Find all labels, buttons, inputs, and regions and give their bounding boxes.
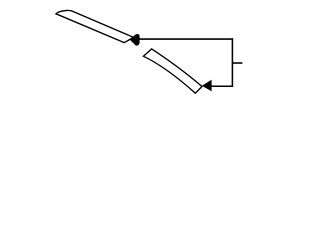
wire: top horizontal segment from arrow A1 to right corner xyxy=(138,38,234,40)
flat blade B1 (upper straight vane) xyxy=(56,10,134,42)
wire: bottom horizontal segment from corner to arrow A2 xyxy=(211,85,233,87)
flow arrow A1 (into flat blade B1) xyxy=(129,34,139,46)
stub tick on right vertical wire xyxy=(232,62,242,64)
wire: right vertical segment xyxy=(231,38,233,87)
flow arrow A2 (into curved blade B2) xyxy=(202,80,212,92)
curved blade B2 (lower curved vane) xyxy=(143,49,202,93)
